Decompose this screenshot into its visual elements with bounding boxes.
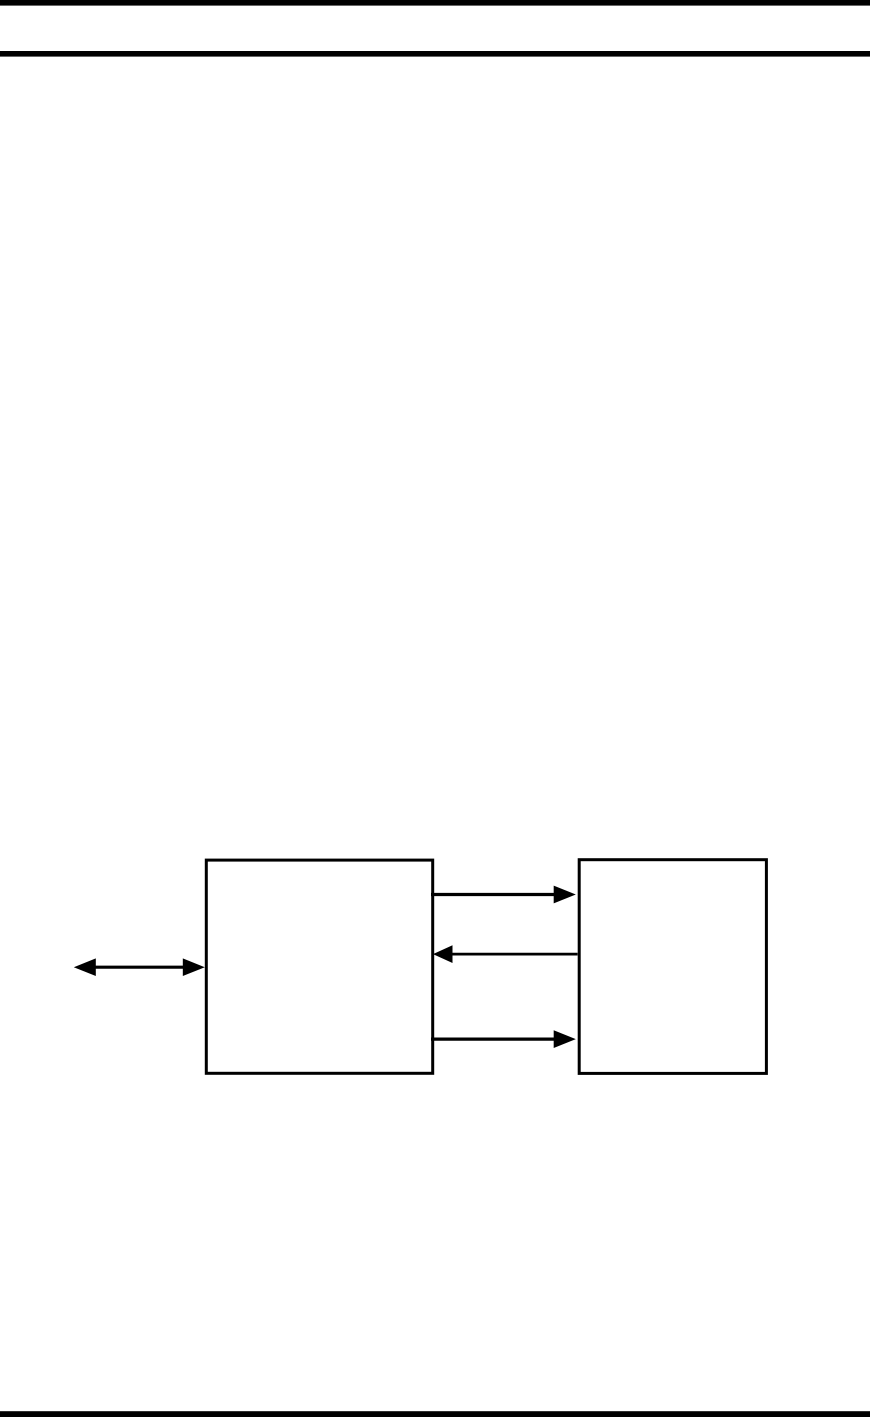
top arrow (left box to right box, pointing right) bbox=[431, 886, 576, 904]
left box bbox=[206, 860, 432, 1073]
footer rule (bottom thick bar) bbox=[0, 1411, 870, 1417]
header rule (second thick bar) bbox=[0, 51, 870, 57]
middle arrow (right box to left box, pointing left) bbox=[433, 945, 578, 963]
header rule (top thick bar) bbox=[0, 0, 870, 6]
right box bbox=[579, 860, 766, 1074]
double-headed arrow (left of left box) bbox=[74, 958, 205, 976]
bottom arrow (left box to right box, pointing right) bbox=[431, 1030, 576, 1048]
